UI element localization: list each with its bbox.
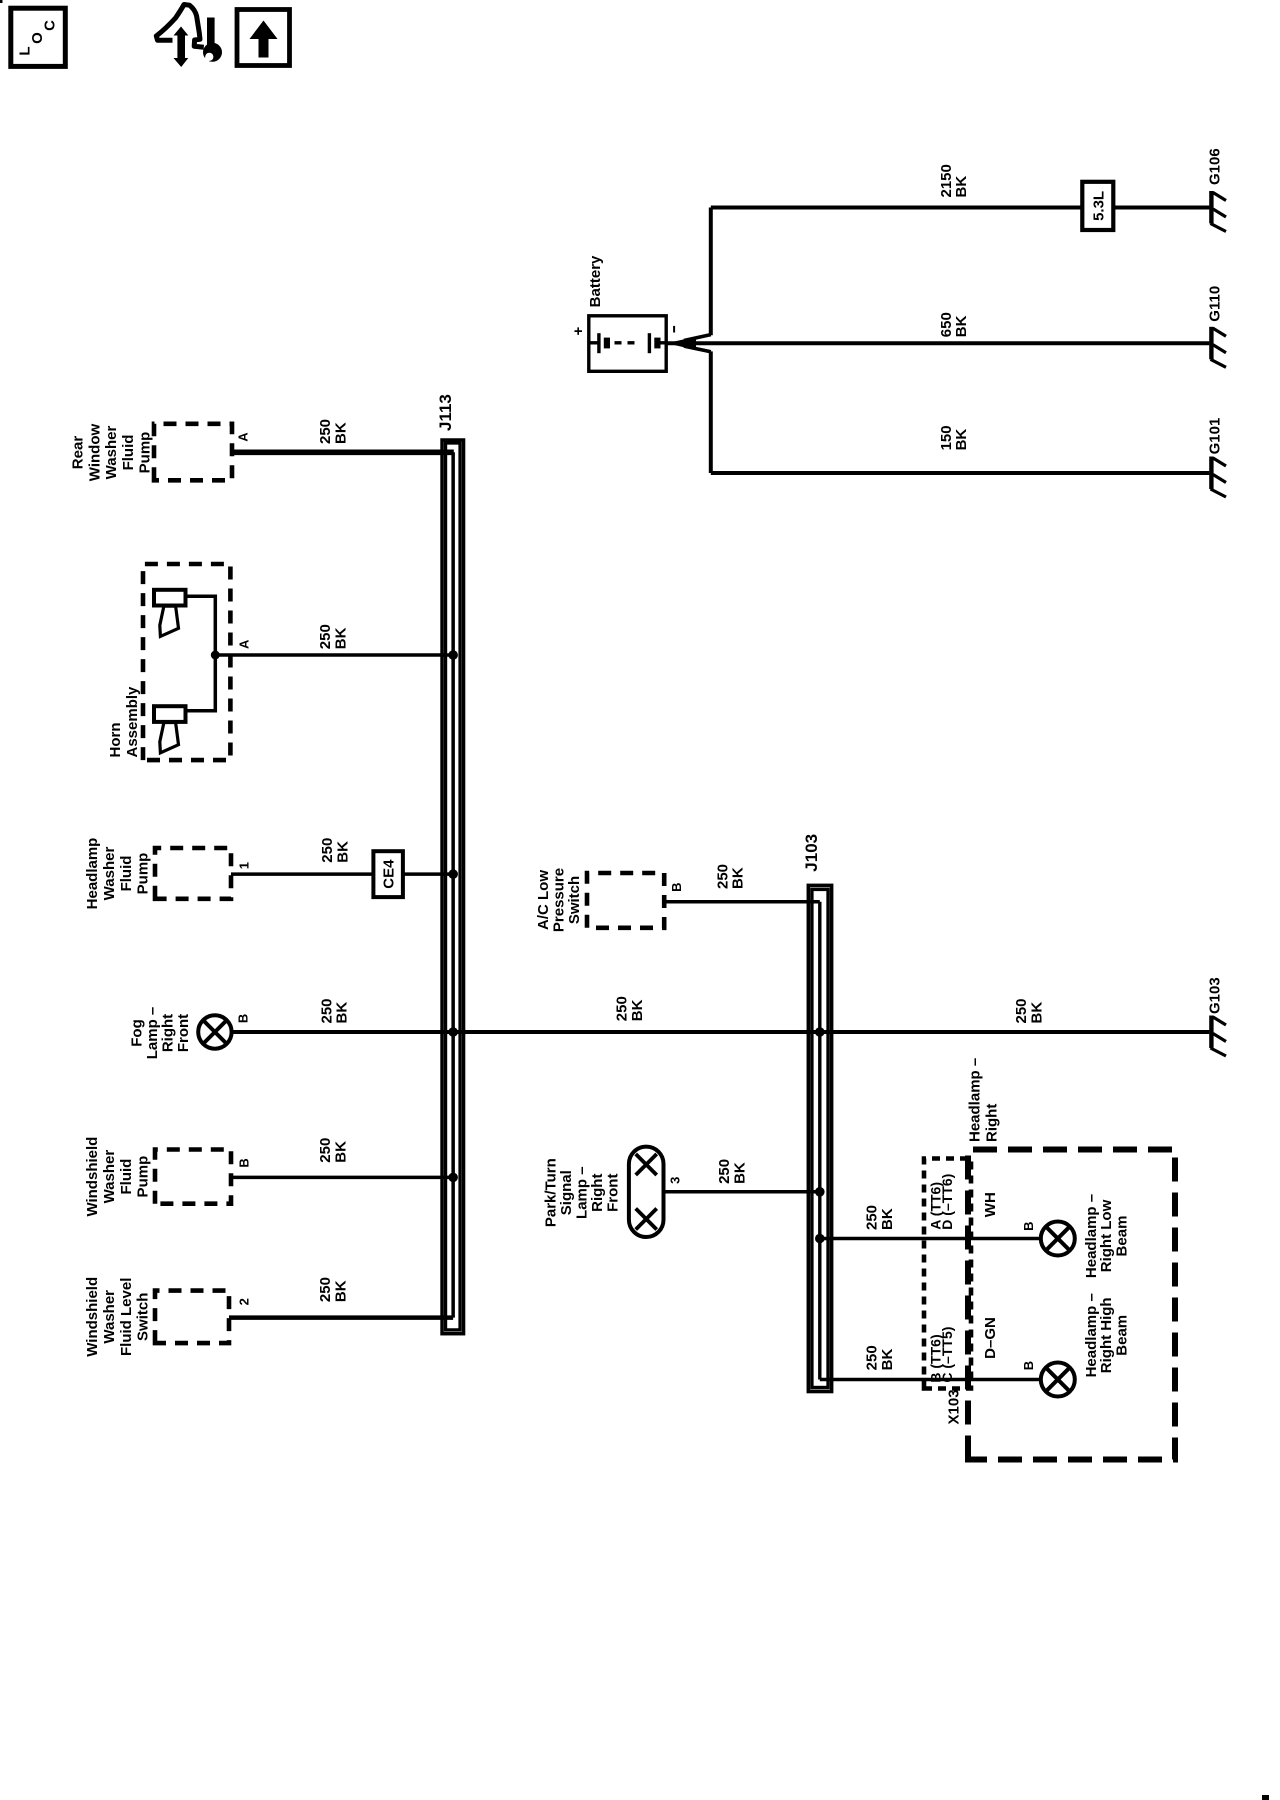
svg-text:O: O bbox=[29, 32, 46, 44]
svg-text:C: C bbox=[41, 20, 58, 31]
svg-text:L: L bbox=[16, 46, 33, 55]
